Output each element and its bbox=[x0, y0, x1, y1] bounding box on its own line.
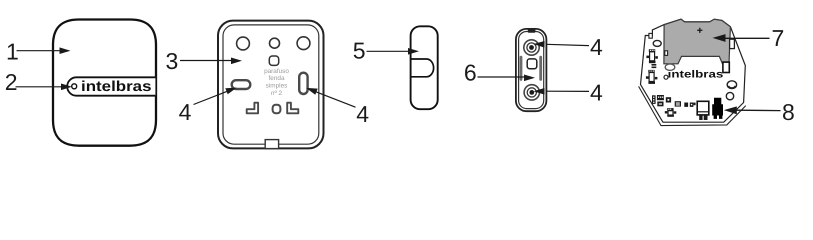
plate slot right (vertical) bbox=[299, 73, 307, 94]
PCB board bottom thickness edge bbox=[639, 86, 746, 125]
svg-text:3: 3 bbox=[166, 48, 179, 74]
part 1 front cover outline bbox=[53, 20, 156, 146]
PCB small lined rect bbox=[675, 101, 681, 106]
battery holder bbox=[664, 19, 731, 64]
battery holder plus mark bbox=[697, 28, 702, 33]
PCB two tiny squares bbox=[684, 103, 688, 107]
plate hole middle bbox=[270, 38, 280, 48]
terminal screw bottom bbox=[524, 85, 539, 100]
svg-text:parafuso: parafuso bbox=[264, 68, 289, 75]
svg-text:8: 8 bbox=[782, 99, 795, 125]
svg-text:4: 4 bbox=[590, 34, 603, 60]
PCB component glyph 1 (transistor) bbox=[646, 49, 657, 63]
PCB ring above button bbox=[726, 92, 733, 99]
PCB board outline bbox=[641, 19, 746, 122]
logo small circle bbox=[72, 84, 77, 89]
arrow 8 bbox=[736, 109, 781, 111]
arrow 3 bbox=[180, 60, 232, 62]
PCB small square with dot bbox=[666, 97, 671, 102]
plate L cutout right bbox=[287, 103, 298, 114]
PCB black button component bbox=[712, 98, 723, 116]
PCB oval ring left bbox=[653, 40, 661, 46]
svg-text:6: 6 bbox=[464, 59, 477, 85]
plate O cutout bbox=[273, 105, 281, 114]
PCB tiny ring right of glyph 2 bbox=[664, 75, 668, 79]
svg-text:nº 2: nº 2 bbox=[271, 90, 283, 97]
svg-text:4: 4 bbox=[590, 80, 603, 106]
svg-text:5: 5 bbox=[353, 38, 366, 64]
PCB crystal can bbox=[697, 101, 709, 115]
plate L cutout left bbox=[247, 103, 258, 114]
svg-text:1: 1 bbox=[6, 39, 19, 65]
logo pill on front cover bbox=[67, 77, 155, 95]
arrow 4a bbox=[194, 91, 228, 104]
PCB white rect near right edge bbox=[723, 62, 729, 72]
PCB small square top-left bbox=[649, 33, 652, 38]
part 6 middle square hole bbox=[527, 59, 537, 69]
part 2 base plate inner outline bbox=[223, 25, 319, 144]
plate bottom tab bbox=[265, 140, 278, 149]
part 6 terminal block outer outline bbox=[516, 29, 547, 111]
arrow 1 bbox=[17, 50, 61, 52]
arrow 7 bbox=[725, 37, 770, 39]
PCB component glyph 2 (transistor) bbox=[646, 70, 657, 84]
battery holder side clip bbox=[730, 39, 735, 48]
part 6 terminal block inner outline bbox=[519, 32, 544, 109]
svg-text:7: 7 bbox=[772, 25, 785, 51]
PCB oval pad below holder bbox=[665, 64, 675, 70]
PCB bottom-left dash rect bbox=[657, 102, 663, 107]
arrow 5 bbox=[367, 50, 410, 52]
svg-text:intelbras: intelbras bbox=[668, 70, 724, 81]
terminal screw top bbox=[524, 40, 539, 55]
PCB bottom-left 3-dot rect bbox=[657, 95, 664, 100]
part 5 clip latch detail bbox=[412, 59, 434, 77]
svg-text:4: 4 bbox=[179, 99, 192, 125]
svg-text:fenda: fenda bbox=[269, 75, 285, 82]
arrow 2 bbox=[16, 86, 63, 88]
PCB component glyph 3 (transistor) bbox=[665, 108, 677, 117]
svg-text:2: 2 bbox=[5, 69, 18, 95]
part 2 base plate outer outline bbox=[218, 21, 324, 149]
arrow 4c bbox=[546, 44, 589, 45]
PCB small square beside glyph 1 bbox=[665, 51, 668, 56]
plate slot left (horizontal) bbox=[232, 80, 251, 89]
PCB bottom-left 3-dot strip bbox=[652, 95, 656, 104]
arrow 4d bbox=[546, 90, 589, 92]
arrow 6 bbox=[478, 76, 526, 78]
svg-text:simples: simples bbox=[266, 83, 288, 90]
part 5 clip body bbox=[411, 26, 438, 109]
PCB grommet oval bbox=[727, 81, 736, 89]
svg-text:4: 4 bbox=[356, 101, 369, 127]
part 6 side slot right bbox=[539, 56, 542, 81]
plate hole right bbox=[297, 37, 310, 50]
part 6 side slot left bbox=[520, 56, 523, 81]
PCB tiny square left of can bbox=[693, 103, 695, 106]
PCB tiny pads bbox=[652, 64, 657, 66]
svg-text:intelbras: intelbras bbox=[81, 79, 152, 95]
arrow 4b bbox=[315, 91, 356, 107]
plate small square hole bbox=[269, 56, 278, 65]
plate hole left bbox=[237, 37, 250, 50]
part 6 top notch bbox=[528, 29, 536, 33]
